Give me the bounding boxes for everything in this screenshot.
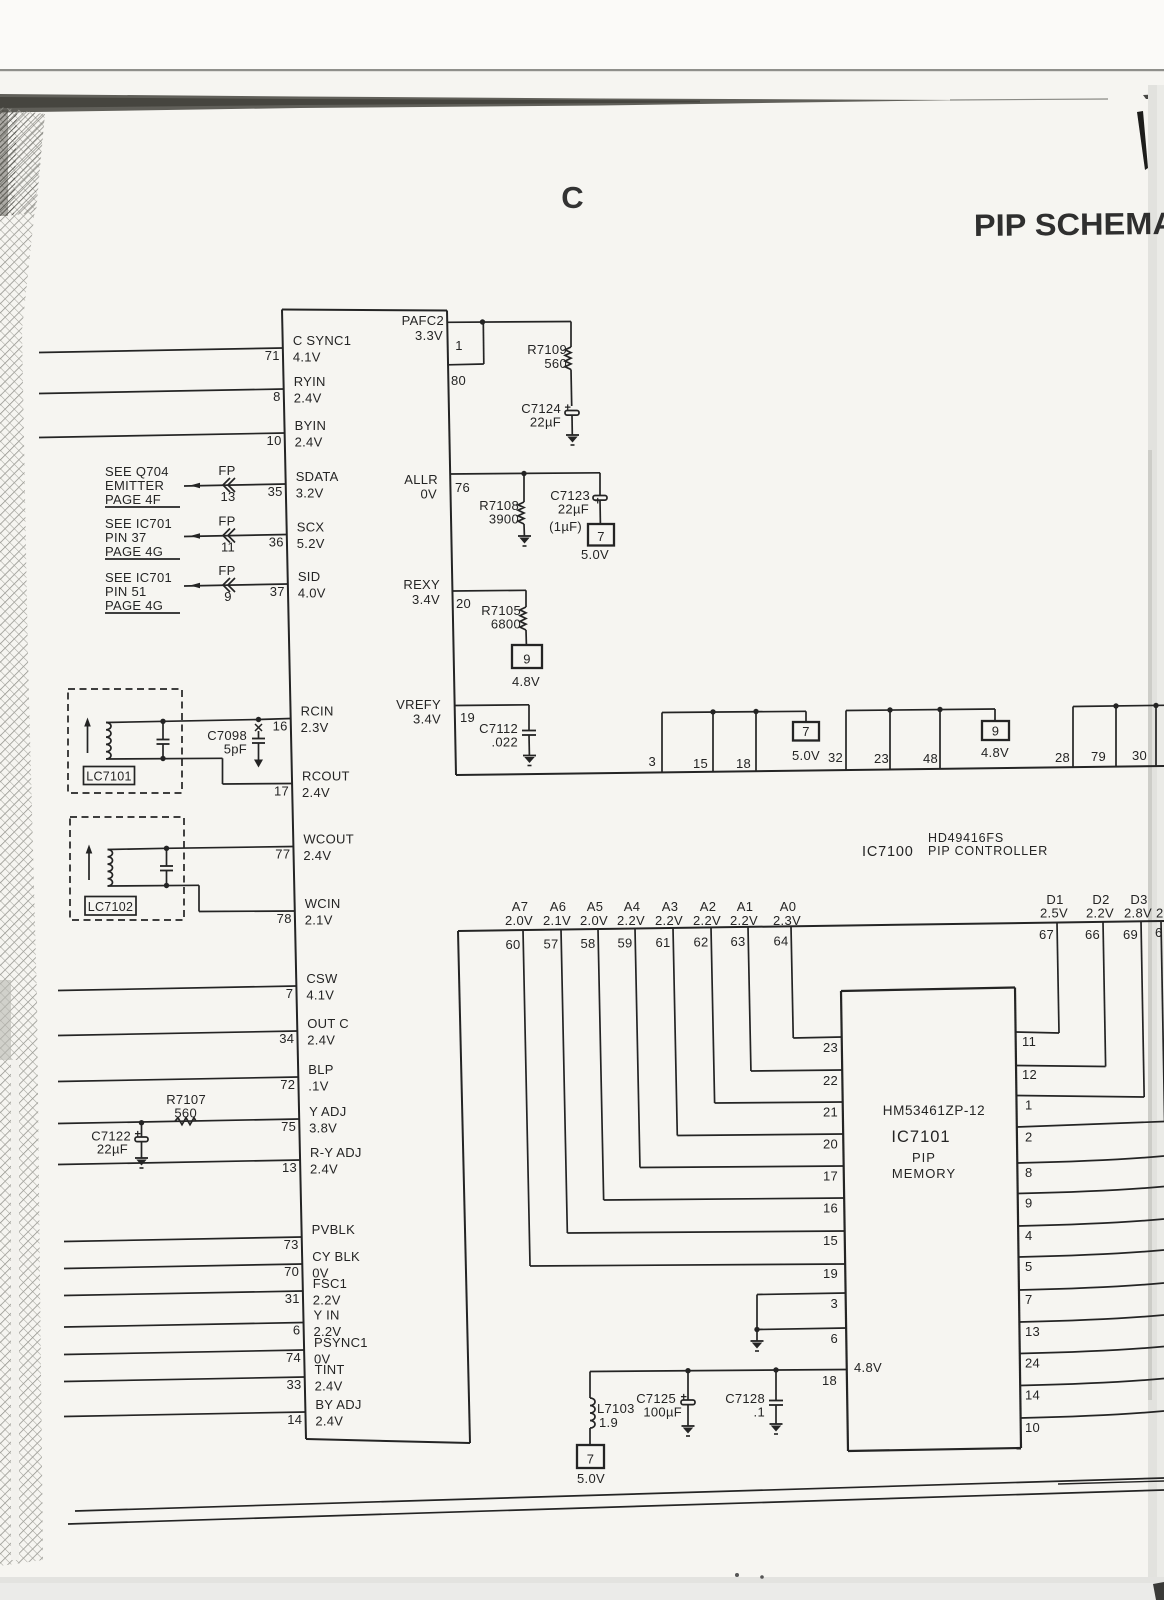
FP arrowhead: [190, 533, 200, 539]
svg-text:12: 12: [1022, 1067, 1037, 1082]
svg-text:4.1V: 4.1V: [306, 988, 334, 1003]
wire address A6 (pin 57) to memory: [561, 930, 845, 1233]
C7125 value label: [636, 1391, 682, 1420]
svg-text:5.2V: 5.2V: [297, 536, 325, 551]
pin 73 label PVBLK: [284, 1222, 356, 1252]
svg-text:16: 16: [823, 1201, 838, 1216]
svg-text:61: 61: [655, 935, 670, 950]
svg-text:IC7101: IC7101: [891, 1128, 950, 1146]
svg-text:15: 15: [693, 756, 708, 771]
vertical tie pins 3-6: [756, 1295, 758, 1330]
LC7101 top wire (to RCIN): [106, 720, 259, 723]
ground for C7122: [135, 1158, 148, 1168]
wire pin 14 (BY ADJ): [64, 1412, 305, 1417]
svg-text:2.4V: 2.4V: [315, 1414, 343, 1429]
svg-text:7: 7: [286, 986, 294, 1001]
off-page reference SEE IC701 PIN 37: [105, 516, 180, 559]
svg-text:1: 1: [455, 338, 463, 353]
junction dots LC7101: [160, 719, 165, 762]
svg-text:20: 20: [456, 596, 471, 611]
svg-text:22µF: 22µF: [97, 1142, 128, 1157]
junction dots left group: [710, 709, 758, 715]
svg-text:SEE Q704: SEE Q704: [105, 464, 169, 479]
capacitor C7122 22uF: [135, 1120, 149, 1158]
svg-text:FSC1: FSC1: [313, 1276, 347, 1291]
svg-text:2.1V: 2.1V: [305, 913, 333, 928]
top scanner strip: [0, 0, 1164, 69]
svg-text:2.: 2.: [1156, 906, 1164, 921]
svg-text:6800: 6800: [491, 617, 521, 632]
svg-text:21: 21: [823, 1105, 838, 1120]
svg-text:2.4V: 2.4V: [307, 1033, 335, 1048]
wire address A5 (pin 58) to memory: [598, 929, 844, 1200]
partial D label at page edge: [1155, 906, 1164, 941]
svg-text:13: 13: [1025, 1324, 1040, 1339]
LC7102 reference label box: [85, 897, 136, 916]
svg-text:19: 19: [823, 1266, 838, 1281]
label A4: [617, 899, 645, 928]
label A3: [655, 899, 683, 928]
pin 7 label CSW: [286, 971, 338, 1003]
svg-text:2.4V: 2.4V: [302, 785, 330, 800]
svg-text:37: 37: [270, 584, 285, 599]
svg-text:9: 9: [1025, 1196, 1033, 1211]
bottom frame line upper: [75, 1478, 1164, 1511]
svg-text:6: 6: [293, 1323, 301, 1338]
svg-text:4.8V: 4.8V: [512, 674, 540, 689]
svg-text:+: +: [681, 1392, 687, 1404]
svg-text:2.2V: 2.2V: [617, 913, 645, 928]
svg-text:RCIN: RCIN: [301, 704, 334, 719]
svg-text:67: 67: [1039, 927, 1054, 942]
svg-text:A7: A7: [512, 899, 529, 914]
FP chevron symbol: [223, 478, 235, 492]
C7112 value label: [479, 721, 518, 750]
svg-text:5.0V: 5.0V: [792, 748, 820, 763]
svg-text:22: 22: [823, 1073, 838, 1088]
svg-text:78: 78: [277, 911, 292, 926]
svg-text:PAGE 4F: PAGE 4F: [105, 492, 161, 507]
svg-text:A2: A2: [700, 899, 717, 914]
resistor R7108 3900: [479, 474, 524, 537]
LC7102 internal capacitor: [160, 848, 173, 885]
capacitor C7112 .022: [522, 705, 536, 756]
IC7100 name label: [862, 844, 1048, 860]
pin 72 label BLP: [280, 1062, 334, 1094]
svg-text:2.0V: 2.0V: [505, 913, 533, 928]
FP chevron symbol: [223, 578, 235, 592]
svg-text:9: 9: [523, 652, 531, 667]
svg-text:2.4V: 2.4V: [294, 391, 322, 406]
svg-text:10: 10: [1025, 1420, 1040, 1435]
svg-text:5.0V: 5.0V: [581, 547, 609, 562]
svg-text:A4: A4: [624, 899, 641, 914]
svg-text:MEMORY: MEMORY: [892, 1166, 956, 1181]
wire address A2 (pin 62) to memory: [711, 927, 843, 1103]
svg-text:28: 28: [1055, 750, 1070, 765]
svg-text:59: 59: [617, 935, 632, 950]
svg-text:71: 71: [265, 348, 280, 363]
svg-text:4: 4: [1025, 1228, 1033, 1243]
svg-text:+: +: [565, 402, 571, 414]
wire pin 75 (Y ADJ): [58, 1119, 299, 1124]
pin 74 label PSYNC1: [286, 1335, 368, 1367]
bottom pin row bus right group (pins 79,30): [1073, 705, 1164, 767]
LC7101 direction arrow: [84, 718, 91, 754]
svg-text:34: 34: [279, 1031, 294, 1046]
wire memory pin 5 off page: [1019, 1250, 1164, 1257]
label A0: [773, 899, 801, 928]
off-page reference SEE IC701 PIN 51: [105, 570, 180, 613]
svg-text:2.2V: 2.2V: [693, 913, 721, 928]
svg-text:HM53461ZP-12: HM53461ZP-12: [883, 1103, 986, 1118]
svg-text:32: 32: [828, 750, 843, 765]
svg-text:74: 74: [286, 1350, 301, 1365]
label D2: [1086, 892, 1114, 921]
junction dot pin 6 wire: [754, 1327, 759, 1332]
svg-text:BYIN: BYIN: [295, 418, 327, 433]
ground for pins 3/6: [751, 1330, 764, 1352]
pin 16 label RCIN: [273, 704, 334, 736]
svg-text:A1: A1: [737, 899, 754, 914]
svg-text:SEE IC701: SEE IC701: [105, 570, 172, 585]
bottom frame line upper doubled segment: [1058, 1481, 1164, 1484]
svg-text:23: 23: [874, 751, 889, 766]
pin 78 label WCIN: [277, 896, 341, 928]
svg-text:PIP CONTROLLER: PIP CONTROLLER: [928, 844, 1048, 858]
junction dot pin 1: [480, 319, 485, 324]
svg-text:560: 560: [544, 356, 567, 371]
svg-text:7: 7: [1025, 1292, 1033, 1307]
svg-text:4.8V: 4.8V: [981, 745, 1009, 760]
capacitor C7125 100uF: [681, 1371, 696, 1426]
ground for C7112: [523, 756, 536, 766]
C7122 value label: [91, 1129, 131, 1157]
wire data line to memory pin 11: [1016, 923, 1059, 1033]
label A2: [693, 899, 721, 928]
wire address A7 (pin 60) to memory: [523, 930, 845, 1266]
pin 71 label C SYNC1: [265, 333, 352, 365]
svg-text:18: 18: [822, 1373, 837, 1388]
pin 6 label Y IN: [293, 1308, 342, 1340]
svg-text:0V: 0V: [420, 487, 437, 502]
power box 9 for R7105: [512, 645, 542, 668]
svg-text:4.8V: 4.8V: [854, 1360, 882, 1375]
pin 70 label CY BLK: [284, 1249, 360, 1281]
bottom frame line lower: [68, 1490, 1164, 1524]
wire pin 20 (REXY): [453, 589, 526, 592]
svg-text:36: 36: [269, 535, 284, 550]
junction dots mid group: [887, 707, 942, 713]
svg-text:REXY: REXY: [403, 577, 440, 592]
svg-text:.1: .1: [754, 1405, 765, 1420]
svg-text:560: 560: [174, 1106, 197, 1121]
svg-text:100µF: 100µF: [643, 1405, 682, 1420]
svg-text:WCOUT: WCOUT: [303, 832, 354, 847]
svg-text:3: 3: [648, 754, 656, 769]
svg-text:A0: A0: [780, 899, 797, 914]
svg-text:SEE IC701: SEE IC701: [105, 516, 172, 531]
junction dots right group: [1113, 703, 1158, 709]
wire pin 73 (PVBLK): [64, 1237, 302, 1242]
svg-text:R7109: R7109: [527, 342, 567, 357]
resistor R7107 560: [166, 1092, 206, 1125]
REXY label: [403, 577, 440, 607]
capacitor C7098 5pF: [252, 717, 265, 768]
LC7101 internal capacitor: [157, 721, 170, 758]
svg-text:66: 66: [1085, 927, 1100, 942]
svg-text:2.4V: 2.4V: [303, 848, 331, 863]
svg-text:7: 7: [597, 529, 605, 544]
svg-text:Y ADJ: Y ADJ: [309, 1104, 346, 1119]
junction dots LC7102: [164, 846, 169, 889]
wire memory pin 8 off page: [1017, 1156, 1164, 1163]
pin 77 label WCOUT: [275, 832, 354, 864]
svg-text:VREFY: VREFY: [396, 697, 441, 712]
svg-text:+: +: [135, 1129, 141, 1141]
svg-text:7: 7: [802, 724, 810, 739]
wire data line to memory pin 2: [1017, 921, 1164, 1127]
capacitor C7128 .1: [769, 1370, 783, 1424]
C7128 value label: [725, 1391, 765, 1420]
wire pin 19 (VREFY): [455, 704, 529, 707]
svg-text:PAGE 4G: PAGE 4G: [105, 544, 163, 559]
svg-text:57: 57: [543, 937, 558, 952]
svg-text:2.2V: 2.2V: [730, 913, 758, 928]
svg-text:63: 63: [730, 934, 745, 949]
svg-text:PVBLK: PVBLK: [312, 1222, 355, 1237]
svg-text:30: 30: [1132, 748, 1147, 763]
pin 31 label FSC1: [285, 1276, 348, 1308]
IC7101 PIP memory body: [841, 988, 1021, 1452]
svg-text:58: 58: [580, 936, 595, 951]
svg-text:11: 11: [221, 540, 235, 555]
svg-text:FP: FP: [218, 463, 235, 478]
title PIP SCHEMATIC: [974, 205, 1164, 243]
svg-text:3.4V: 3.4V: [413, 712, 441, 727]
svg-text:80: 80: [451, 373, 466, 388]
IC7100 PIP controller body outline: [282, 310, 1164, 1444]
svg-text:EMITTER: EMITTER: [105, 478, 164, 493]
svg-text:HD49416FS: HD49416FS: [928, 831, 1004, 845]
svg-text:13: 13: [220, 489, 235, 504]
pin 34 label OUT C: [279, 1016, 349, 1048]
svg-text:19: 19: [460, 710, 475, 725]
LC7102 top wire (to WCOUT): [108, 848, 167, 849]
power box 9 on bottom row: [982, 721, 1009, 740]
svg-text:3.8V: 3.8V: [309, 1121, 337, 1136]
wire memory pin 18 supply rail: [590, 1370, 847, 1399]
power box 7 on bottom row: [793, 722, 819, 741]
junction dot pin 76: [521, 471, 526, 476]
wire address A3 (pin 61) to memory: [673, 928, 843, 1136]
svg-text:IC7100: IC7100: [862, 844, 914, 860]
resistor R7109 560: [527, 322, 572, 407]
pin 33 label TINT: [287, 1362, 345, 1394]
wire pin 72 (BLP): [58, 1077, 298, 1082]
svg-text:22µF: 22µF: [558, 502, 589, 517]
wire FP 11 to pin: [184, 535, 287, 537]
wire memory pin 13 off page: [1019, 1315, 1164, 1322]
svg-text:CSW: CSW: [306, 971, 338, 986]
svg-text:ALLR: ALLR: [404, 472, 438, 487]
wire pin 33 (TINT): [64, 1377, 305, 1382]
LC7102 dashed enclosure: [70, 817, 184, 920]
wire pin 7 (CSW): [58, 986, 296, 991]
label D3: [1124, 892, 1152, 921]
svg-text:SCX: SCX: [297, 520, 325, 535]
power box 7 for C7123: [588, 524, 614, 546]
svg-text:2.0V: 2.0V: [580, 913, 608, 928]
FP arrowhead: [190, 583, 200, 589]
svg-text:22µF: 22µF: [530, 415, 561, 430]
wire pin 76 (ALLR): [450, 473, 600, 474]
LC7101 bottom wire (to RCOUT): [106, 757, 223, 760]
svg-text:2.4V: 2.4V: [310, 1162, 338, 1177]
capacitor C7123 22uF (1uF): [593, 473, 607, 524]
svg-text:2.4V: 2.4V: [295, 435, 323, 450]
svg-text:RYIN: RYIN: [294, 374, 326, 389]
wire memory pin 14 off page: [1020, 1379, 1164, 1386]
wire FP 13 to pin: [184, 484, 286, 486]
label A7: [505, 899, 533, 928]
bottom right corner mark: [1153, 1582, 1164, 1600]
label A5: [580, 899, 608, 928]
svg-text:BY ADJ: BY ADJ: [315, 1397, 361, 1412]
wire pin 8 (RYIN): [39, 389, 284, 394]
wire pin 6 (Y IN): [64, 1323, 303, 1328]
svg-text:PAFC2: PAFC2: [402, 313, 444, 328]
svg-text:.1V: .1V: [308, 1079, 328, 1094]
svg-text:2.1V: 2.1V: [543, 913, 571, 928]
svg-text:69: 69: [1123, 927, 1138, 942]
wire memory pin 9 off page: [1018, 1187, 1164, 1194]
left page-edge hatch band: [0, 107, 45, 1566]
svg-text:5.0V: 5.0V: [577, 1471, 605, 1486]
svg-text:1: 1: [1025, 1098, 1033, 1113]
svg-text:6: 6: [830, 1331, 838, 1346]
FP arrowhead: [190, 483, 200, 489]
svg-text:2.8V: 2.8V: [1124, 906, 1152, 921]
svg-text:5pF: 5pF: [224, 742, 247, 757]
right page-edge band: [1148, 85, 1164, 1600]
svg-text:LC7101: LC7101: [86, 770, 132, 784]
svg-text:23: 23: [823, 1040, 838, 1055]
svg-text:4.1V: 4.1V: [293, 350, 321, 365]
svg-text:13: 13: [282, 1160, 297, 1175]
pin 10 label BYIN: [267, 418, 327, 450]
bottom pin row bus mid group (pins 23,48): [846, 709, 995, 770]
svg-text:9: 9: [992, 724, 1000, 739]
svg-text:OUT C: OUT C: [307, 1016, 349, 1031]
svg-text:A3: A3: [662, 899, 679, 914]
ALLR label: [404, 472, 438, 502]
svg-text:SDATA: SDATA: [296, 469, 339, 484]
FP label 11: [218, 514, 235, 555]
svg-text:2.3V: 2.3V: [301, 720, 329, 735]
svg-text:2: 2: [1025, 1130, 1033, 1145]
wire memory pin 10 off page: [1021, 1411, 1164, 1418]
svg-text:3: 3: [830, 1296, 838, 1311]
svg-text:WCIN: WCIN: [305, 896, 341, 911]
inductor LC7102 coil: [108, 850, 113, 886]
C7098 value label: [207, 728, 247, 757]
wire memory pin 4 off page: [1018, 1219, 1164, 1226]
wire pin 31 (FSC1): [64, 1291, 303, 1296]
top shadow line: [0, 69, 1164, 71]
wire address A0 (pin 64) to memory: [791, 926, 842, 1038]
ground for C7128: [770, 1424, 783, 1434]
wire pin 10 (BYIN): [39, 433, 285, 438]
svg-text:4.0V: 4.0V: [298, 586, 326, 601]
svg-text:PSYNC1: PSYNC1: [314, 1335, 368, 1350]
svg-text:2.5V: 2.5V: [1040, 906, 1068, 921]
svg-text:73: 73: [284, 1237, 299, 1252]
top right edge mark: [1143, 94, 1164, 99]
ground for C7125: [682, 1426, 695, 1436]
svg-text:2.4V: 2.4V: [315, 1379, 343, 1394]
svg-text:A6: A6: [550, 899, 567, 914]
svg-text:10: 10: [267, 433, 282, 448]
svg-text:60: 60: [505, 937, 520, 952]
C7123 value label: [549, 488, 590, 534]
svg-text:2.2V: 2.2V: [1086, 906, 1114, 921]
svg-text:3900: 3900: [489, 512, 519, 527]
svg-text:A5: A5: [587, 899, 604, 914]
svg-text:6: 6: [1155, 925, 1163, 940]
svg-text:14: 14: [287, 1412, 302, 1427]
wire memory pin 3: [757, 1293, 846, 1295]
pin 75 label Y ADJ: [281, 1104, 346, 1136]
svg-text:RCOUT: RCOUT: [302, 769, 350, 784]
svg-text:75: 75: [281, 1119, 296, 1134]
svg-text:7: 7: [587, 1452, 595, 1467]
wire pin 74 (PSYNC1): [64, 1350, 304, 1355]
ground for R7108: [518, 536, 531, 546]
inductor LC7101 coil: [106, 723, 111, 759]
bottom pin row bus left group (pins 3,15,18): [662, 711, 806, 772]
svg-text:72: 72: [280, 1077, 295, 1092]
svg-text:2.2V: 2.2V: [655, 913, 683, 928]
svg-text:FP: FP: [218, 563, 235, 578]
wire pin 70 (CY BLK): [64, 1264, 302, 1269]
svg-text:24: 24: [1025, 1356, 1040, 1371]
wire data line to memory pin 12: [1016, 922, 1106, 1067]
VREFY label: [396, 697, 441, 727]
svg-text:18: 18: [736, 756, 751, 771]
ground for C7124: [566, 435, 579, 445]
svg-text:Y IN: Y IN: [313, 1308, 339, 1323]
pin 35 label SDATA: [268, 469, 339, 501]
svg-text:R-Y ADJ: R-Y ADJ: [310, 1145, 362, 1160]
capacitor C7124 22uF: [565, 402, 580, 435]
svg-text:17: 17: [823, 1169, 838, 1184]
svg-text:15: 15: [823, 1233, 838, 1248]
pen mark top right: [1137, 111, 1148, 170]
wire data line to memory pin 1: [1016, 921, 1144, 1097]
svg-text:PIP: PIP: [912, 1150, 936, 1165]
pin 14 label BY ADJ: [287, 1397, 361, 1429]
wire memory pin 24 off page: [1020, 1347, 1164, 1354]
FP label 13: [218, 463, 235, 504]
pin 1/80 PAFC2 wire and box: [447, 322, 571, 365]
pin 37 label SID: [270, 569, 326, 601]
svg-text:(1µF): (1µF): [549, 519, 582, 534]
pin 17 label RCOUT: [274, 769, 350, 801]
svg-text:LC7102: LC7102: [88, 900, 134, 914]
svg-text:PIN 37: PIN 37: [105, 530, 147, 545]
svg-text:64: 64: [773, 933, 788, 948]
